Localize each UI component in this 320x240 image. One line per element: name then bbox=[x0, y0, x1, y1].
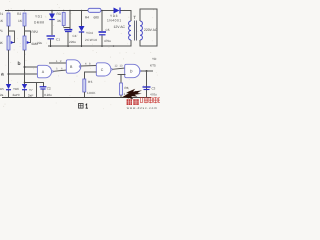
svg-text:C4: C4 bbox=[73, 34, 77, 38]
svg-text:R4: R4 bbox=[85, 15, 89, 19]
watermark character 维 bbox=[127, 99, 132, 105]
svg-text:1N4001: 1N4001 bbox=[107, 19, 122, 23]
resistor R1 bbox=[7, 13, 10, 26]
label YD / KT (right edge) bbox=[150, 57, 157, 68]
pin specks near gate D bbox=[115, 65, 123, 68]
capacitor C4 (electrolytic) bbox=[64, 30, 72, 48]
svg-text:RP2: RP2 bbox=[32, 30, 39, 34]
wire C3 vertical bbox=[146, 71, 148, 98]
capacitor C2 bbox=[40, 87, 47, 98]
diode YD6 bbox=[22, 84, 27, 90]
watermark character 库 bbox=[133, 99, 138, 105]
wire gate D output to right edge bbox=[141, 70, 153, 72]
junction C2 branch bbox=[24, 82, 26, 84]
svg-text:C5: C5 bbox=[106, 28, 110, 32]
pin specks near gate C input bbox=[85, 62, 91, 65]
label C3 bbox=[150, 87, 157, 97]
label figure caption 图1 bbox=[79, 104, 88, 109]
junction node a bbox=[8, 73, 10, 75]
wire R3 bottom L to C4 node bbox=[64, 26, 70, 28]
svg-text:R1: R1 bbox=[0, 12, 3, 16]
pin number specks near gate B inputs bbox=[56, 60, 63, 70]
wire gate B output to gate C upper input bbox=[81, 65, 97, 68]
capacitor C1 bbox=[47, 36, 56, 47]
svg-text:R6: R6 bbox=[125, 86, 129, 90]
zener diode YD4 bbox=[79, 26, 85, 47]
wire node b to gate A upper input bbox=[25, 66, 38, 68]
diode YD1 bbox=[49, 11, 55, 20]
wire R1 to RP1 bbox=[8, 26, 10, 36]
wire gate C output to gate D upper input bbox=[113, 68, 126, 69]
svg-text:a: a bbox=[1, 72, 4, 78]
wire gate D lower input from R6 bbox=[118, 74, 126, 76]
svg-text:KT5: KT5 bbox=[150, 64, 156, 68]
potentiometer RP2 bbox=[23, 31, 31, 50]
svg-text:YD4: YD4 bbox=[86, 31, 93, 35]
wire gate A output to gate B lower input bbox=[54, 70, 67, 71]
label C5 bbox=[104, 28, 111, 43]
label C4 bbox=[69, 34, 77, 44]
svg-text:100K: 100K bbox=[87, 91, 96, 95]
watermark eagle logo bbox=[122, 89, 142, 100]
wire top supply rail bbox=[5, 10, 88, 12]
svg-text:R5: R5 bbox=[88, 80, 93, 84]
svg-text:470u: 470u bbox=[150, 93, 157, 97]
svg-text:12V AC: 12V AC bbox=[114, 25, 126, 29]
wire YD7 vertical bbox=[35, 82, 37, 97]
wire top rail to C4 bbox=[69, 11, 71, 30]
resistor R2 bbox=[23, 13, 26, 26]
wire mid ground rail bbox=[48, 45, 132, 47]
capacitor C5 (electrolytic) bbox=[99, 32, 107, 47]
svg-text:470u: 470u bbox=[104, 39, 111, 43]
wire RP2 down to node b and diode YD6 bbox=[24, 50, 26, 97]
junction dots on rails bbox=[8, 10, 115, 47]
svg-text:Y7: Y7 bbox=[29, 88, 33, 92]
wire RP1 down to node a and diode YD5 bbox=[8, 50, 10, 97]
transformer T windings bbox=[129, 21, 143, 41]
svg-text:www.dzsc.com: www.dzsc.com bbox=[127, 106, 158, 110]
wire upper line to gate B upper input bbox=[49, 62, 67, 64]
svg-text:YD1: YD1 bbox=[35, 15, 43, 19]
svg-text:C2: C2 bbox=[47, 87, 51, 91]
label R6 bbox=[124, 86, 131, 96]
svg-text:R2: R2 bbox=[17, 12, 21, 16]
resistor R5 bbox=[83, 79, 86, 92]
svg-text:DM88: DM88 bbox=[34, 21, 45, 25]
svg-text:C: C bbox=[101, 68, 104, 72]
svg-text:220u: 220u bbox=[69, 40, 76, 44]
label YD1 bbox=[34, 15, 45, 25]
svg-text:2aP9: 2aP9 bbox=[13, 93, 20, 97]
svg-text:22u: 22u bbox=[37, 41, 42, 45]
wire R5 to bottom rail bbox=[83, 92, 85, 98]
gate B (NAND) bbox=[66, 60, 80, 73]
label YD4 bbox=[85, 31, 97, 42]
svg-text:P1: P1 bbox=[0, 29, 3, 33]
resistor R3 bbox=[62, 13, 65, 26]
watermark characters dianzishichangwang bbox=[140, 97, 160, 103]
wire R6 vertical bbox=[120, 75, 122, 84]
wire R6 to bottom rail bbox=[120, 95, 122, 98]
wire top rail to C5 bbox=[101, 11, 103, 32]
label R4 bbox=[85, 15, 99, 19]
label RP1 (cut at left edge) bbox=[0, 29, 4, 45]
wire 220V primary loop bbox=[140, 9, 157, 46]
wire R2 to RP2 bbox=[24, 26, 26, 36]
wire gate C lower input to R5 bbox=[84, 72, 96, 79]
label R2 bbox=[17, 12, 23, 23]
svg-text:220V AC: 220V AC bbox=[144, 28, 158, 32]
svg-text:2a: 2a bbox=[0, 93, 4, 97]
wire top rail right section (R4 to YD3 to transformer) bbox=[101, 11, 132, 22]
potentiometer RP1 bbox=[7, 31, 15, 50]
label R5 bbox=[87, 80, 96, 95]
wire transformer secondary bottom to mid rail bbox=[130, 40, 132, 46]
svg-text:YD: YD bbox=[152, 57, 157, 61]
gate D (NAND) bbox=[125, 64, 141, 77]
svg-text:D: D bbox=[130, 70, 133, 74]
wire node a to gate A lower input bbox=[9, 73, 38, 75]
resistor R4 bbox=[88, 8, 101, 12]
svg-text:R3: R3 bbox=[57, 12, 61, 16]
svg-text:2CW10: 2CW10 bbox=[85, 38, 97, 42]
svg-text:D5: D5 bbox=[0, 87, 4, 91]
capacitor C3 bbox=[143, 87, 151, 90]
gate A (NAND) bbox=[37, 65, 53, 78]
svg-text:680: 680 bbox=[94, 15, 100, 19]
wire C2 branch from node b vertical bbox=[25, 82, 44, 86]
label YD3 bbox=[107, 14, 122, 23]
svg-text:YD6: YD6 bbox=[13, 87, 19, 91]
resistor R6 bbox=[120, 83, 123, 95]
gate C (NAND) bbox=[96, 63, 112, 76]
svg-text:T: T bbox=[133, 15, 136, 20]
svg-text:0.22u: 0.22u bbox=[44, 93, 52, 97]
diode YD3 bbox=[114, 8, 121, 14]
label YD5 (cut at left edge) bbox=[0, 87, 4, 97]
label YD7 bbox=[28, 88, 33, 98]
label R3 bbox=[57, 12, 62, 23]
label C1 bbox=[37, 38, 60, 46]
label YD6 bbox=[13, 87, 20, 97]
wire bottom ground rail bbox=[2, 97, 151, 99]
junction gate D output bbox=[146, 70, 148, 72]
wire YD1 to C1 bbox=[51, 20, 53, 35]
junction node b bbox=[24, 66, 26, 68]
svg-text:C3: C3 bbox=[152, 87, 156, 91]
label R1 value (cut at left edge) bbox=[0, 12, 4, 23]
wire top rail to YD4 bbox=[81, 11, 83, 27]
svg-text:C1: C1 bbox=[56, 38, 60, 42]
svg-text:YD3: YD3 bbox=[110, 14, 118, 18]
label C2 bbox=[44, 87, 52, 98]
svg-text:b: b bbox=[18, 61, 21, 67]
diode YD5 bbox=[6, 84, 11, 90]
label RP2 bbox=[32, 30, 39, 46]
